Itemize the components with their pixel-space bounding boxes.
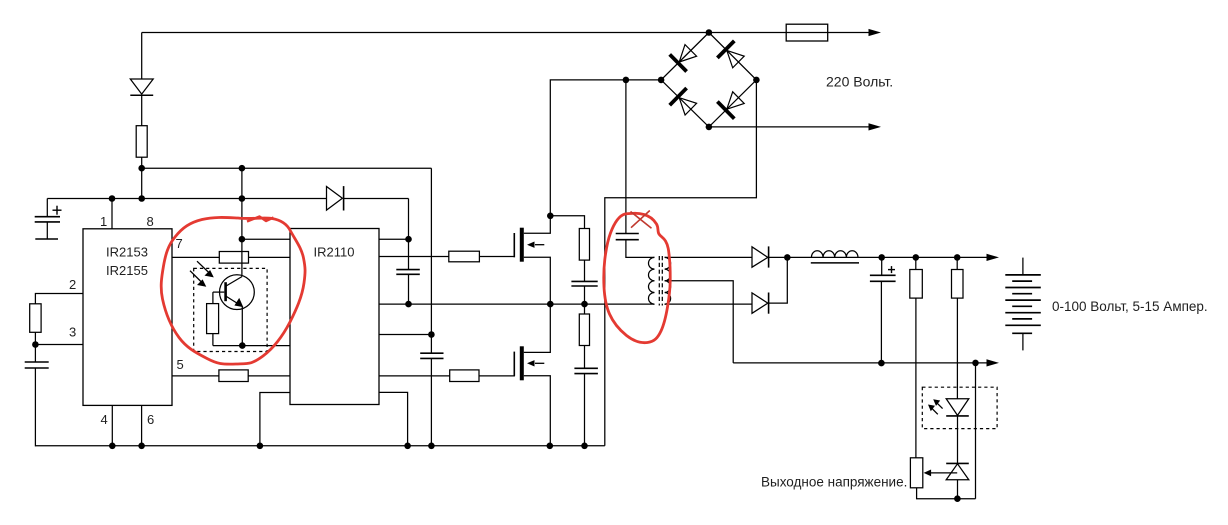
transistor Q1 photo collector lead — [226, 277, 242, 286]
dashed box optocoupler 1 — [194, 268, 267, 351]
resistor R11 — [952, 270, 964, 299]
wire secondary center tap — [665, 281, 734, 363]
wire bottom ground rail — [35, 445, 604, 447]
transistor Q3 low-side MOSFET — [514, 346, 524, 380]
red annotation X mark — [631, 211, 652, 229]
wire from top rail down to diode D1 — [141, 33, 143, 80]
transistor Q2 high-side MOSFET — [514, 228, 524, 262]
wire D8 to node — [769, 257, 788, 303]
diode D6 bridge bottom-right — [717, 92, 744, 119]
Q3 drain lead — [524, 304, 551, 352]
wire VCC pin y334 — [379, 334, 431, 336]
node dot Vcc-pin8 — [138, 195, 145, 202]
svg-text:IR2153: IR2153 — [106, 245, 148, 260]
node dot HO rail x242 — [239, 165, 246, 172]
wire R11 to LED — [956, 298, 958, 399]
transistor Q1 emitter lead — [226, 296, 243, 307]
svg-text:3: 3 — [69, 325, 76, 340]
wire HO supply rail y168 — [142, 167, 432, 169]
wire C7 to primary — [626, 240, 655, 258]
resistor R10 — [910, 270, 923, 299]
capacitor C1 polarized — [35, 199, 62, 240]
wire x431 bottom section — [430, 358, 432, 445]
svg-text:IR2110: IR2110 — [314, 245, 355, 260]
wire collector vertical x242 — [241, 168, 243, 276]
capacitor C6 — [574, 368, 598, 373]
node dot Vcc x242 — [239, 195, 246, 202]
node dot x260 gnd — [257, 443, 264, 450]
light arrow 1 from LED — [933, 399, 942, 408]
wire RP1 bottom — [917, 488, 976, 499]
resistor R1 — [136, 126, 147, 158]
wire R8 to C5 — [584, 260, 586, 281]
node dot pin6 gnd — [138, 443, 145, 450]
svg-text:6: 6 — [147, 412, 154, 427]
transistor Q1 photo circle — [220, 275, 255, 310]
node dot COM gnd — [404, 443, 411, 450]
resistor R2 — [30, 304, 41, 333]
wire pin6 — [141, 405, 143, 445]
node dot collector top — [239, 236, 246, 243]
wire LIN return x260 — [260, 393, 290, 446]
wire pin3 node to C2 — [34, 345, 36, 363]
inductor L1 core line — [811, 262, 859, 264]
svg-text:7: 7 — [176, 236, 183, 251]
wire R10 to potentiometer — [915, 298, 917, 458]
wire C5 to mid — [584, 286, 586, 304]
node dot R11 top — [954, 254, 961, 261]
node dot divider gnd — [581, 443, 588, 450]
resistor R3 — [219, 252, 248, 264]
light arrow 2 from LED — [928, 405, 938, 415]
resistor R8 — [579, 229, 589, 261]
svg-text:5: 5 — [177, 357, 184, 372]
wire R5 to emitter rail — [212, 334, 214, 346]
wire base to R5 — [212, 292, 214, 304]
potentiometer RP1 — [910, 458, 922, 488]
wire Q2 drain to divider — [550, 216, 584, 229]
transistor Q1 base bar — [224, 282, 227, 301]
capacitor C8 filter — [870, 257, 896, 363]
transformer T1 secondary winding — [665, 257, 671, 304]
node dot R10 top — [913, 254, 920, 261]
node dot bridge left — [658, 77, 665, 84]
wire D1 to R1 — [141, 95, 143, 125]
node dot C8 top — [878, 254, 885, 261]
diode D7 output top — [752, 246, 769, 267]
Q2 body arrow — [527, 242, 544, 248]
node dot C8 gnd — [878, 360, 885, 367]
transistor Q1 base lead — [213, 291, 224, 293]
resistor R5 — [207, 304, 219, 334]
wire VS mid rail — [379, 303, 655, 305]
wire C2 to ground rail — [34, 368, 36, 446]
node dot Vcc-pin1 — [109, 195, 116, 202]
arrowhead V- out — [987, 359, 1000, 366]
node dot Q2 drain — [547, 213, 554, 220]
wire HO gate — [379, 256, 515, 258]
diode D1 (pointing down) — [130, 79, 153, 95]
Q3 source lead — [524, 376, 551, 446]
wire DC+ to C7 — [625, 80, 627, 234]
wire R10 top lead — [915, 257, 917, 269]
svg-text:8: 8 — [147, 214, 154, 229]
arrowhead V+ out — [987, 254, 1000, 261]
svg-text:Выходное напряжение.: Выходное напряжение. — [761, 475, 907, 490]
svg-text:2: 2 — [69, 277, 76, 292]
wire R9 to C6 — [584, 346, 586, 369]
battery B1 — [1005, 258, 1041, 351]
wire V- to feedback gnd — [975, 363, 977, 499]
wire secondary bottom lead — [665, 303, 752, 305]
svg-text:4: 4 — [101, 412, 108, 427]
Q2 source lead — [524, 257, 551, 304]
node dot x431 gnd — [428, 443, 435, 450]
arrowhead 220V line 2 — [869, 123, 882, 130]
wire bridge diamond — [661, 33, 756, 127]
wire secondary top lead — [665, 256, 752, 258]
wire pin2 — [35, 294, 83, 304]
diode D4 bridge top-right — [717, 41, 744, 68]
wire COM pin — [379, 392, 408, 445]
wire bootstrap down to IR2110 pin — [408, 199, 410, 240]
arrowhead 220V line 1 — [869, 29, 882, 36]
node dot pin4 gnd — [109, 443, 116, 450]
node dot rectifier out — [784, 254, 791, 261]
diode D8 output bottom — [752, 293, 769, 314]
wire DC+ down to Q2 drain — [550, 80, 661, 216]
transformer T1 core — [659, 256, 662, 306]
svg-text:1: 1 — [100, 214, 107, 229]
node dot bridge right — [753, 77, 760, 84]
op-amp U1 IR2153 box — [83, 229, 172, 406]
wire emitter down — [241, 306, 243, 345]
diode D9 opto LED — [946, 399, 969, 416]
node dot VS-C3 — [405, 301, 412, 308]
node dot Q3 source gnd — [547, 443, 554, 450]
wire pin7 to IR2110 — [172, 256, 290, 258]
fuse F1 — [786, 24, 828, 41]
wire LED to zener — [957, 416, 959, 464]
wire x431 top section — [430, 168, 432, 353]
Q3 body arrow — [527, 360, 544, 366]
diode D3 bridge top-left — [670, 45, 697, 72]
node dot pin3 — [32, 341, 39, 348]
svg-text:IR2155: IR2155 — [106, 263, 148, 278]
light arrow 2 into Q1 — [190, 271, 206, 287]
wire zener to gnd node — [957, 480, 959, 499]
wire V- out rail — [733, 362, 988, 364]
dashed box optocoupler 2 — [922, 387, 997, 428]
resistor R7 — [450, 370, 479, 382]
Q2 drain lead — [524, 216, 551, 234]
svg-text:220 Вольт.: 220 Вольт. — [826, 74, 893, 90]
red annotation circle around transformer — [604, 213, 670, 342]
red annotation squiggle top — [247, 217, 274, 222]
wire R11 top lead — [956, 257, 958, 269]
wire AC neutral — [709, 126, 869, 128]
wire pin1 to Vcc — [111, 199, 113, 229]
wire pin3 — [35, 344, 83, 346]
node dot bridge bottom — [706, 124, 713, 131]
light arrow 1 into Q1 — [197, 261, 214, 277]
wire emitter rail to IR2110 — [213, 345, 290, 347]
wire C6 to gnd — [584, 374, 586, 446]
op-amp U2 IR2110 box — [290, 229, 379, 405]
node dot bridge top — [706, 29, 713, 36]
wire R2 to pin3 node — [34, 332, 36, 344]
wire pin4 — [111, 405, 113, 445]
wire R1 to supply node — [141, 157, 143, 199]
resistor R6 — [449, 251, 480, 262]
capacitor C4 supply — [420, 353, 443, 358]
node dot V- right — [972, 360, 979, 367]
diode D5 bridge bottom-left — [670, 88, 697, 115]
resistor R4 — [219, 370, 248, 382]
svg-text:0-100 Вольт, 5-15 Ампер.: 0-100 Вольт, 5-15 Ампер. — [1052, 299, 1208, 314]
wire x242 to IR2110 left pin — [242, 238, 290, 240]
wire V+ out rail — [787, 256, 987, 258]
wire mid to R9 — [584, 304, 586, 314]
node dot emitter rail — [239, 342, 246, 349]
transformer T1 primary winding — [648, 257, 654, 304]
wire pin5 to IR2110 — [172, 375, 290, 377]
node dot VB — [405, 236, 412, 243]
capacitor C7 DC-block — [616, 234, 639, 240]
node dot DC+ tap — [623, 77, 630, 84]
RP1 wiper arrow — [924, 470, 958, 477]
diode D10 zener — [946, 463, 969, 479]
diode D2 bootstrap — [327, 186, 344, 210]
inductor L1 — [811, 251, 858, 258]
capacitor C2 — [25, 362, 49, 368]
wire D7 to node — [769, 256, 788, 258]
node dot feedback gnd — [954, 495, 961, 502]
capacitor C3 bootstrap — [396, 239, 420, 304]
wire VB pin to cap node — [379, 238, 409, 240]
node dot half-bridge mid — [547, 301, 554, 308]
red annotation circle around optocoupler — [161, 217, 305, 364]
capacitor C5 — [571, 281, 597, 286]
wire Vcc rail y198 — [47, 198, 326, 200]
wire DC- from bridge right — [605, 80, 757, 446]
node dot y334 — [428, 331, 435, 338]
node dot divider mid — [581, 301, 588, 308]
node dot HO rail left — [138, 165, 145, 172]
wire LO gate — [379, 375, 515, 377]
wire top AC rail — [142, 32, 869, 34]
resistor R9 — [579, 314, 589, 346]
wire Vcc rail y198 right part — [344, 198, 409, 200]
